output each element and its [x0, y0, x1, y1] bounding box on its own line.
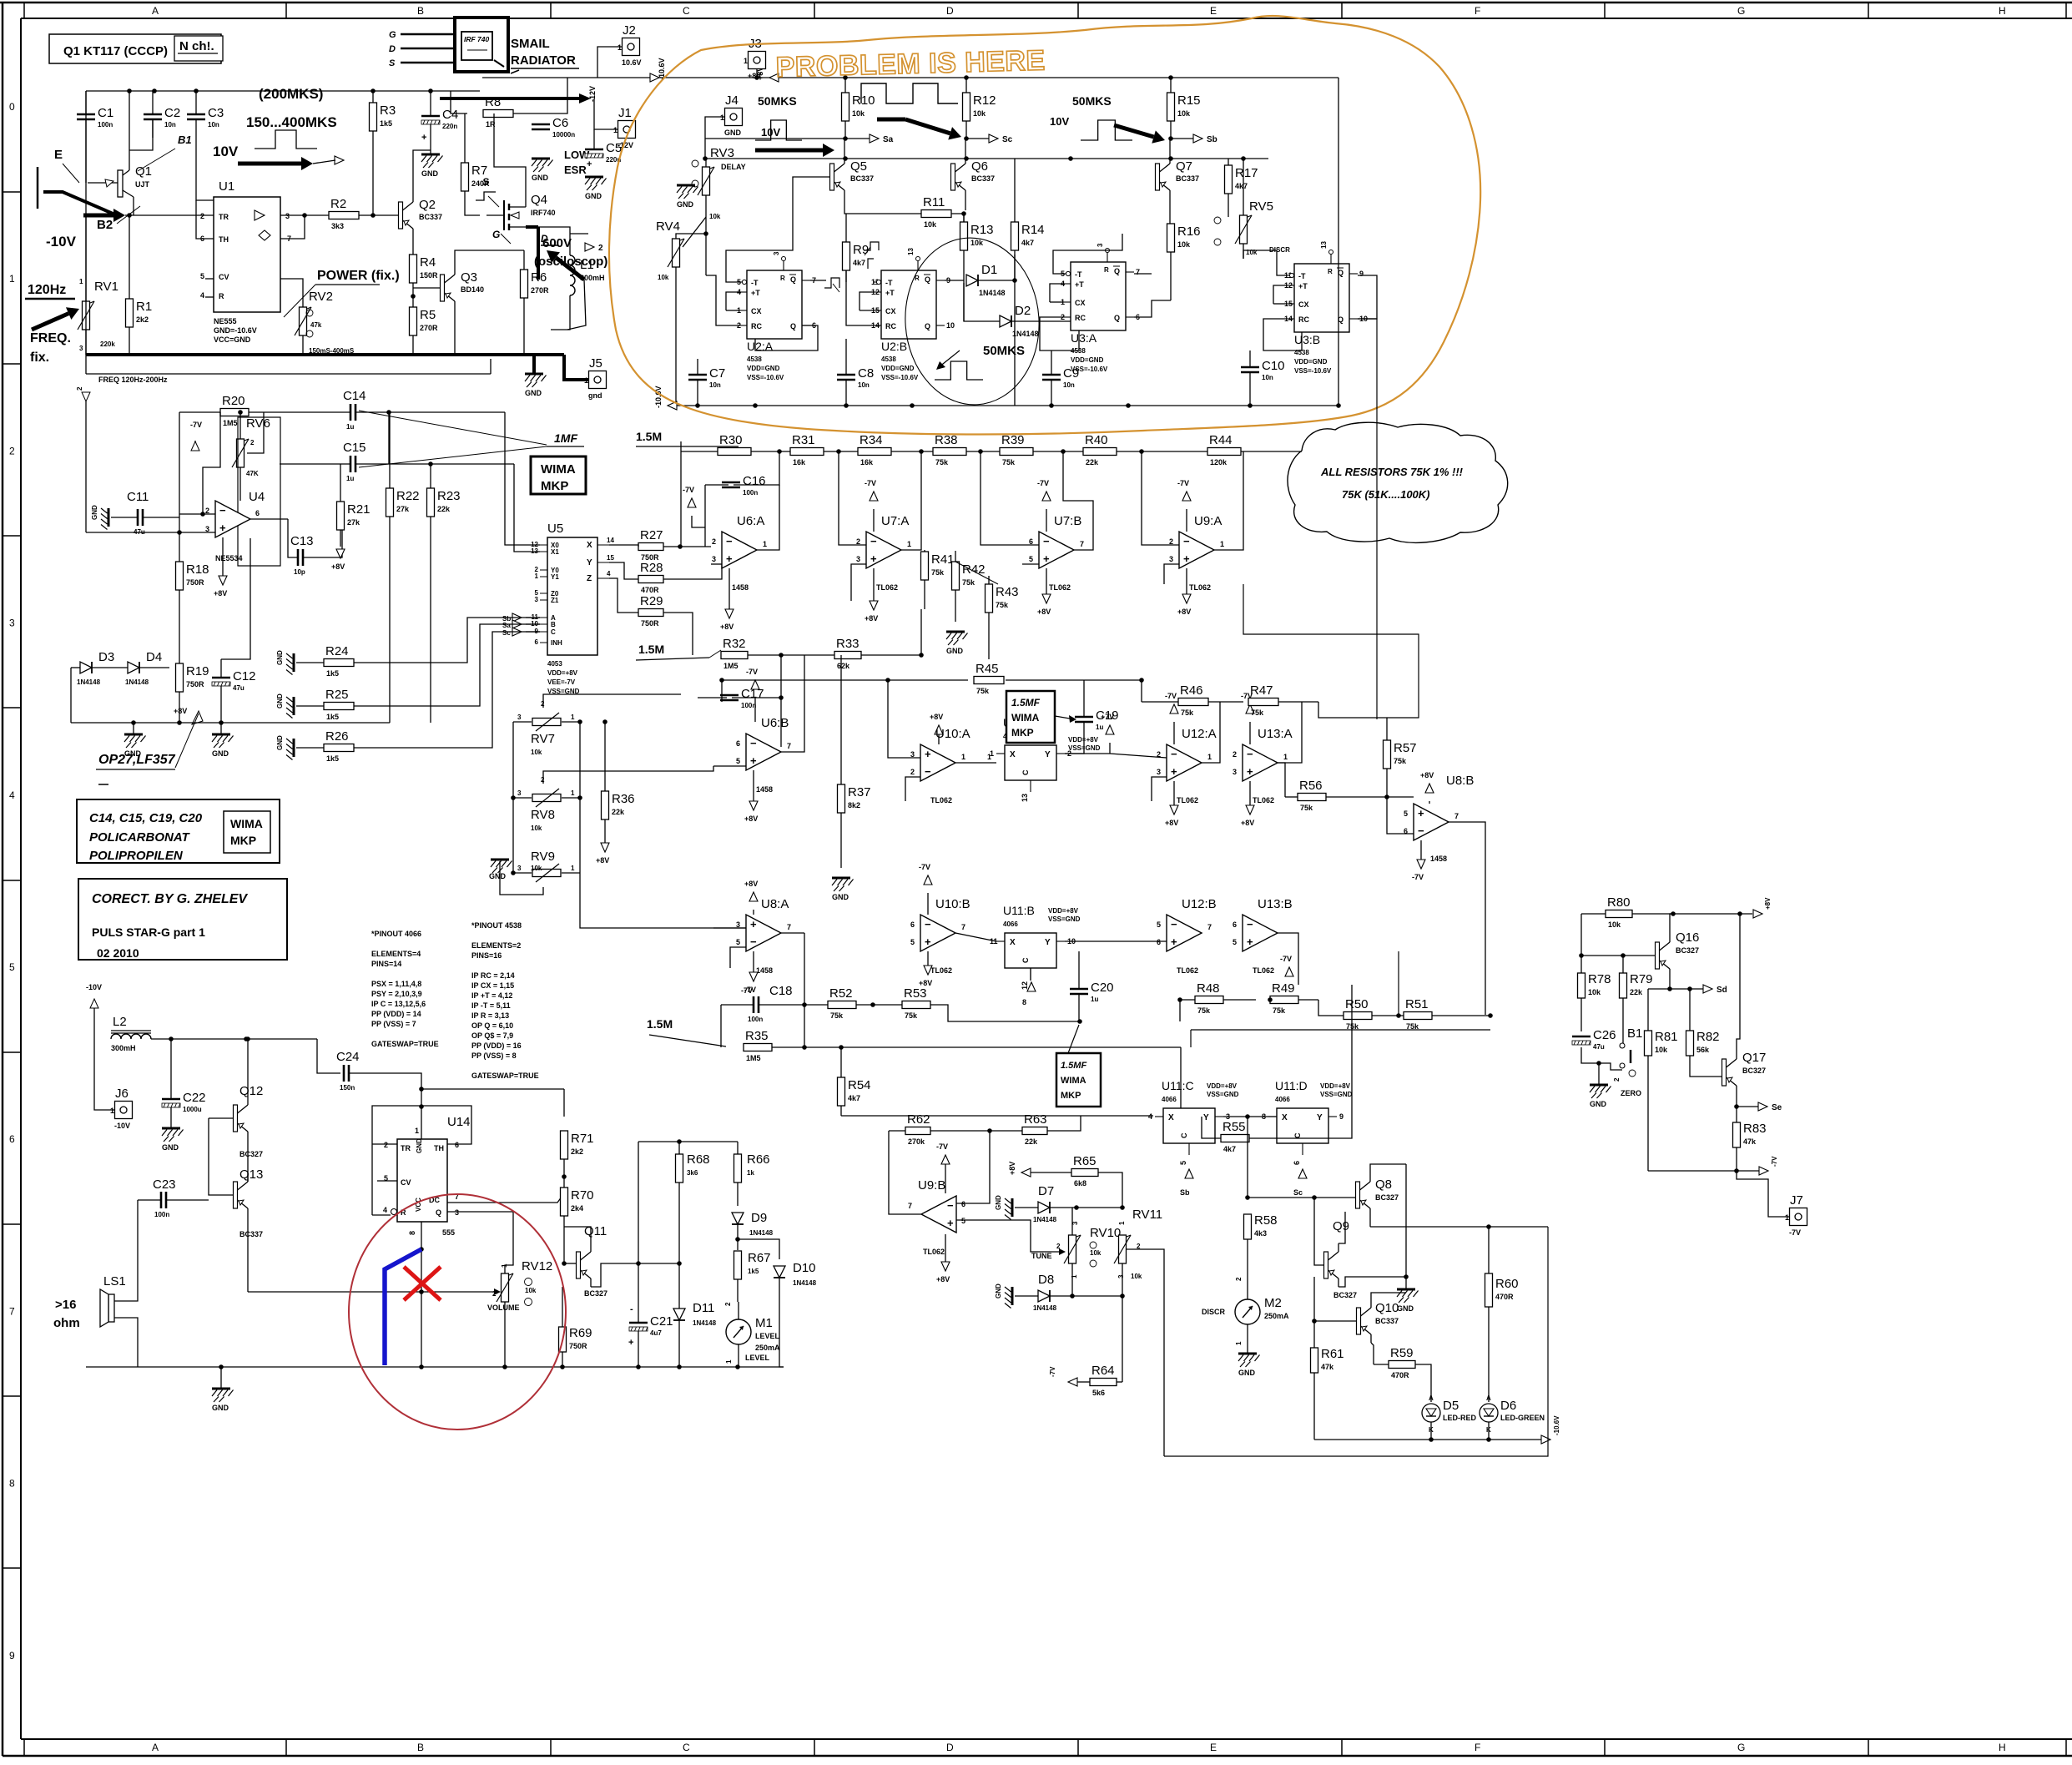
- transistor Q5: [830, 155, 875, 199]
- svg-text:R65: R65: [1073, 1154, 1096, 1168]
- WIMA MKP box top: [531, 456, 586, 494]
- svg-text:-T: -T: [1075, 270, 1082, 279]
- svg-text:GND: GND: [724, 129, 742, 137]
- power -10V top: [86, 983, 102, 1008]
- transistor Q12: [234, 1097, 249, 1140]
- svg-text:10.6V: 10.6V: [622, 58, 642, 67]
- resistor R66: [734, 1152, 770, 1183]
- resistor R82: [1686, 1030, 1720, 1056]
- wire base row Q16: [1581, 955, 1655, 956]
- wire R82 col top: [1689, 989, 1691, 1031]
- svg-text:14: 14: [607, 537, 614, 544]
- wire Q9 emitter row: [1338, 1277, 1406, 1287]
- wire left col from J5 region: [680, 441, 682, 547]
- wire U4 plus: [86, 532, 215, 533]
- svg-text:75k: 75k: [931, 568, 945, 577]
- svg-text:-7V: -7V: [683, 486, 694, 494]
- resistor R22: [386, 488, 420, 517]
- orange marker loop: [609, 16, 1480, 435]
- svg-text:1k5: 1k5: [326, 713, 339, 721]
- svg-text:+: +: [1043, 552, 1050, 565]
- svg-text:CORECT. BY G. ZHELEV: CORECT. BY G. ZHELEV: [92, 892, 248, 906]
- wire R41: [924, 550, 925, 552]
- capacitor C20: [1070, 981, 1114, 1003]
- wire U7B in-: [981, 451, 1039, 545]
- potentiometer RV11: [1114, 1235, 1131, 1263]
- wire RV6 top: [239, 412, 241, 439]
- wire R33: [804, 654, 834, 656]
- wire U1 pin7: [280, 215, 305, 239]
- svg-text:C7: C7: [709, 366, 725, 381]
- svg-text:TL062: TL062: [930, 796, 952, 804]
- wire U2A rc: [755, 325, 818, 350]
- potentiometer RV7: [532, 713, 561, 731]
- resistor R57: [1384, 740, 1417, 769]
- svg-text:RV4: RV4: [656, 219, 680, 234]
- wire R56 left: [1278, 763, 1285, 797]
- transistor Q9: [1324, 1219, 1358, 1299]
- svg-text:16k: 16k: [793, 458, 806, 466]
- svg-text:3: 3: [1096, 243, 1104, 247]
- svg-text:ELEMENTS=2: ELEMENTS=2: [471, 941, 521, 950]
- text POWER fix: [284, 269, 400, 317]
- svg-text:TR: TR: [401, 1144, 411, 1152]
- wire Q16 collector: [1669, 977, 1671, 989]
- svg-text:−: −: [750, 737, 757, 749]
- wire Q5 collector: [844, 139, 845, 155]
- thick bus -12V: [440, 97, 584, 100]
- wire R33 up: [920, 609, 922, 655]
- svg-text:R26: R26: [325, 729, 349, 744]
- svg-text:R68: R68: [687, 1152, 710, 1167]
- svg-text:R78: R78: [1588, 972, 1611, 986]
- svg-text:+: +: [587, 159, 592, 169]
- op-amp U12:A: [1167, 727, 1217, 804]
- resistor R38: [933, 433, 966, 466]
- svg-text:IP -T = 5,11: IP -T = 5,11: [471, 1001, 511, 1010]
- wire top row col: [638, 1142, 639, 1263]
- wire RV9: [513, 872, 532, 874]
- svg-text:R: R: [1328, 268, 1333, 275]
- resistor R43: [986, 584, 1019, 613]
- wire R81 dn: [1647, 1056, 1649, 1171]
- svg-text:100n: 100n: [154, 1211, 169, 1218]
- rail -10.6V bottom right: [1314, 1439, 1542, 1440]
- svg-text:Q5: Q5: [850, 159, 867, 174]
- wire R46: [1142, 701, 1178, 703]
- wire 865 down: [721, 680, 723, 702]
- svg-text:RV5: RV5: [1249, 199, 1273, 214]
- wire right rail down: [1338, 78, 1339, 406]
- svg-text:R81: R81: [1655, 1030, 1678, 1044]
- resistor R33: [834, 637, 861, 670]
- svg-text:M1: M1: [755, 1316, 773, 1330]
- svg-text:GND: GND: [212, 749, 229, 758]
- connector J3: [744, 37, 766, 80]
- svg-text:WIMA: WIMA: [1061, 1076, 1086, 1086]
- svg-text:1.5MF: 1.5MF: [1011, 697, 1041, 709]
- ground C26: [1590, 1063, 1611, 1108]
- svg-text:5: 5: [200, 272, 204, 280]
- resistor R61: [1311, 1347, 1344, 1373]
- svg-text:R30: R30: [719, 433, 743, 447]
- svg-text:3: 3: [712, 555, 716, 563]
- power -7V U8B: [1412, 840, 1425, 881]
- svg-text:6: 6: [255, 509, 260, 517]
- svg-text:U2:B: U2:B: [881, 340, 907, 353]
- svg-text:R35: R35: [745, 1029, 769, 1043]
- svg-text:MKP: MKP: [1061, 1091, 1081, 1101]
- wire R20 left col: [179, 412, 180, 436]
- svg-text:R69: R69: [569, 1326, 592, 1340]
- svg-text:4k7: 4k7: [1223, 1145, 1236, 1153]
- wire R32: [748, 654, 804, 656]
- resistor R78: [1578, 972, 1611, 998]
- resistor R54: [838, 1077, 871, 1106]
- svg-text:9: 9: [9, 1650, 15, 1662]
- wire C7: [697, 359, 698, 375]
- svg-text:VSS=GND: VSS=GND: [1320, 1091, 1353, 1098]
- wire Q4 source: [526, 225, 538, 229]
- wire RV7 input rail to U8A: [580, 873, 746, 928]
- resistor R41: [921, 552, 955, 580]
- svg-text:-12V: -12V: [588, 86, 597, 102]
- svg-text:RC: RC: [885, 322, 896, 330]
- svg-text:A: A: [152, 5, 159, 17]
- wire L1 to scope arrow: [570, 233, 588, 234]
- svg-text:R28: R28: [640, 561, 663, 575]
- capacitor C1: [77, 106, 113, 129]
- signal arrow: [512, 613, 522, 622]
- diode D7: [1033, 1184, 1057, 1223]
- text block PINOUT 4538: [471, 921, 539, 1080]
- label B1: [138, 134, 192, 171]
- wire U5 left stubs: [526, 617, 540, 618]
- wire J3 down: [756, 69, 758, 78]
- svg-text:4066: 4066: [1162, 1096, 1177, 1103]
- wire R80 left col: [1580, 914, 1582, 956]
- svg-text:27k: 27k: [347, 518, 360, 527]
- node -7V: [1734, 1168, 1739, 1173]
- svg-text:−: −: [219, 504, 226, 517]
- svg-text:GND: GND: [212, 1404, 229, 1412]
- resistor R65: [1071, 1154, 1098, 1188]
- svg-text:U7:B: U7:B: [1054, 514, 1081, 528]
- wire D3D4: [71, 667, 80, 668]
- wire Q16 emitter: [1670, 914, 1673, 934]
- wire RV4 wiper line: [683, 217, 706, 247]
- power +8V U9B: [936, 1234, 950, 1283]
- wire RV11 pin2: [1127, 1249, 1164, 1456]
- wire C21: [638, 1263, 639, 1323]
- svg-text:7: 7: [787, 742, 791, 750]
- resistor R4: [410, 255, 439, 283]
- ground: [995, 1195, 1012, 1220]
- wire U2B q: [945, 280, 964, 281]
- svg-text:LEVEL: LEVEL: [755, 1332, 780, 1340]
- svg-text:POLIPROPILEN: POLIPROPILEN: [89, 849, 184, 863]
- resistor R6: [521, 270, 550, 298]
- svg-text:PSY = 2,10,3,9: PSY = 2,10,3,9: [371, 990, 422, 998]
- wire RV9 tap: [500, 873, 543, 895]
- wire RV9 col: [512, 798, 514, 873]
- power +8V U9A: [1177, 568, 1191, 616]
- svg-text:+T: +T: [885, 289, 895, 297]
- svg-text:RV1: RV1: [94, 280, 118, 294]
- op-amp U10:A: [920, 727, 970, 804]
- svg-text:IP C = 13,12,5,6: IP C = 13,12,5,6: [371, 1000, 426, 1008]
- svg-text:VSS=GND: VSS=GND: [1207, 1091, 1239, 1098]
- wire Q5 emitter: [844, 199, 845, 210]
- wire rail drop Q1 col: [85, 91, 87, 355]
- thick bottom oscillator rail: [86, 353, 564, 356]
- wire Q3 base: [413, 287, 440, 289]
- svg-text:5: 5: [736, 757, 740, 765]
- svg-text:+8V: +8V: [936, 1275, 950, 1283]
- wire R15: [1170, 78, 1172, 93]
- svg-text:R1: R1: [136, 300, 152, 314]
- svg-text:WIMA: WIMA: [541, 462, 576, 477]
- wire C24 right: [349, 1073, 421, 1089]
- svg-text:D11: D11: [693, 1301, 714, 1315]
- red X marker: [404, 1267, 441, 1300]
- resistor R20: [220, 394, 249, 427]
- text 1.5M mid: [636, 643, 721, 660]
- svg-text:RC: RC: [751, 322, 762, 330]
- svg-text:OP Q$ = 7,9: OP Q$ = 7,9: [471, 1031, 513, 1040]
- svg-text:RC: RC: [1075, 314, 1086, 322]
- svg-text:Q4: Q4: [531, 193, 547, 207]
- resistor R32: [721, 637, 748, 670]
- thick arrow Sc: [877, 119, 961, 139]
- svg-text:C: C: [1021, 957, 1030, 963]
- svg-text:47k: 47k: [1743, 1137, 1757, 1146]
- wire U6B out: [781, 655, 804, 752]
- wire U8A in: [713, 927, 746, 929]
- svg-text:270R: 270R: [420, 324, 438, 332]
- mid rail R45 row: [722, 679, 968, 681]
- power arrow -7V: [1177, 479, 1191, 501]
- resistor R67: [734, 1251, 771, 1279]
- wire top oscillator rail: [86, 90, 480, 92]
- wire R8 right: [513, 78, 567, 113]
- svg-text:1: 1: [415, 1127, 419, 1135]
- svg-text:+8V: +8V: [1008, 1162, 1016, 1175]
- wire D1 up: [1014, 255, 1016, 280]
- svg-text:IRF740: IRF740: [531, 209, 556, 217]
- wire R65: [1031, 1172, 1071, 1173]
- svg-text:TL062: TL062: [1049, 583, 1071, 592]
- svg-text:750R: 750R: [641, 619, 659, 628]
- svg-text:R12: R12: [973, 93, 996, 108]
- IC U3:B: [1284, 241, 1368, 375]
- svg-text:1: 1: [1207, 753, 1212, 761]
- svg-text:IP R = 3,13: IP R = 3,13: [471, 1011, 509, 1020]
- svg-text:X: X: [587, 541, 592, 550]
- wire U3A qbar: [1134, 273, 1152, 275]
- resistor R27: [638, 528, 663, 562]
- wire C15 right: [389, 463, 514, 465]
- svg-text:Q3: Q3: [461, 270, 477, 285]
- capacitor C6: [532, 116, 575, 139]
- svg-text:R44: R44: [1209, 433, 1233, 447]
- power +8V U7A: [865, 568, 878, 623]
- svg-text:U13:A: U13:A: [1258, 727, 1293, 741]
- blue marker line: [385, 1249, 421, 1365]
- svg-text:5: 5: [1029, 555, 1033, 563]
- svg-text:BC327: BC327: [1676, 946, 1699, 955]
- wire 555 pin3: [447, 1212, 513, 1275]
- svg-text:3: 3: [517, 865, 522, 872]
- wire R49: [1298, 999, 1318, 1001]
- svg-text:D7: D7: [1038, 1184, 1054, 1198]
- svg-text:Z1: Z1: [551, 597, 559, 604]
- wire B1: [1599, 1063, 1622, 1070]
- potentiometer RV8: [532, 789, 561, 807]
- thick arrow: [755, 144, 834, 157]
- IRF740 radiator symbol: [455, 18, 508, 72]
- transistor Q12: [234, 1084, 264, 1158]
- svg-text:TUNE: TUNE: [1031, 1252, 1052, 1260]
- svg-text:2: 2: [598, 244, 603, 253]
- wire freq row: [86, 373, 491, 375]
- power arrow Sb: [1180, 1169, 1193, 1197]
- svg-text:VSS=GND: VSS=GND: [1048, 915, 1081, 923]
- svg-text:LED-GREEN: LED-GREEN: [1500, 1414, 1545, 1422]
- resistor R55: [1221, 1120, 1249, 1153]
- svg-text:IP +T = 4,12: IP +T = 4,12: [471, 991, 512, 1000]
- node Se: [1734, 1104, 1739, 1109]
- wire U2B -T trig: [864, 242, 879, 269]
- svg-text:R3: R3: [380, 103, 396, 118]
- svg-text:VDD=GND: VDD=GND: [1071, 356, 1104, 364]
- wire RV7 tap: [543, 694, 681, 708]
- svg-text:TL062: TL062: [1253, 796, 1274, 804]
- svg-text:22k: 22k: [1086, 458, 1099, 466]
- svg-text:U3:A: U3:A: [1071, 331, 1097, 345]
- svg-text:(200MKS): (200MKS): [259, 86, 323, 102]
- nodes row3: [131, 720, 136, 725]
- svg-text:U8:B: U8:B: [1446, 774, 1474, 788]
- svg-text:J5: J5: [589, 356, 602, 371]
- capacitor C22: [162, 1091, 206, 1113]
- svg-text:2: 2: [712, 537, 716, 546]
- svg-text:750R: 750R: [186, 578, 204, 587]
- svg-text:4: 4: [1148, 1112, 1152, 1121]
- node r190b: [843, 156, 848, 161]
- svg-text:PSX = 1,11,4,8: PSX = 1,11,4,8: [371, 980, 421, 988]
- svg-text:+T: +T: [751, 289, 760, 297]
- svg-text:X: X: [1010, 750, 1016, 759]
- svg-text:C13: C13: [290, 534, 314, 548]
- svg-text:R15: R15: [1177, 93, 1201, 108]
- signal arrow Sc: [989, 134, 1013, 144]
- svg-text:1u: 1u: [1091, 996, 1098, 1003]
- wire C5 up: [593, 129, 595, 149]
- svg-text:2: 2: [1056, 1243, 1061, 1250]
- svg-text:BC337: BC337: [239, 1230, 263, 1238]
- frame row numbers: [9, 101, 15, 1662]
- svg-text:R50: R50: [1345, 997, 1369, 1011]
- svg-text:VDD=GND: VDD=GND: [747, 365, 780, 372]
- svg-text:1: 1: [571, 865, 575, 872]
- wire R69: [562, 1287, 563, 1327]
- svg-text:CX: CX: [1075, 299, 1086, 307]
- svg-text:C: C: [551, 628, 556, 636]
- resistor R42: [952, 562, 986, 590]
- svg-text:ZERO: ZERO: [1621, 1089, 1641, 1097]
- svg-text:10n: 10n: [858, 381, 870, 389]
- diode D3: [80, 662, 92, 673]
- svg-text:10k: 10k: [1608, 920, 1621, 929]
- svg-text:U4: U4: [249, 490, 265, 504]
- svg-text:R: R: [219, 292, 224, 300]
- wire Q10 base col: [1313, 1277, 1315, 1348]
- svg-text:R80: R80: [1607, 895, 1631, 910]
- ground: [421, 154, 443, 178]
- wire R35: [772, 1046, 1181, 1048]
- svg-text:R19: R19: [186, 664, 209, 678]
- svg-text:10V: 10V: [213, 144, 239, 159]
- 1.5MF WIMA MKP box low: [1056, 1025, 1101, 1107]
- potentiometer RV3: [692, 146, 746, 220]
- power arrow -7V: [744, 972, 758, 994]
- svg-text:G: G: [1737, 5, 1745, 17]
- resistor R35: [744, 1029, 772, 1062]
- wire C12: [220, 659, 222, 678]
- svg-text:R27: R27: [640, 528, 663, 542]
- wire Q8 right col: [1405, 1164, 1407, 1277]
- svg-text:2: 2: [384, 1141, 388, 1149]
- power arrow +8V: [865, 601, 878, 623]
- potentiometer RV4: [668, 239, 684, 267]
- IC U5 4053: [531, 522, 614, 695]
- wire D10: [779, 1278, 784, 1367]
- wire C17: [698, 697, 727, 698]
- svg-text:1N4148: 1N4148: [693, 1319, 717, 1327]
- wire RV3 tap: [705, 234, 707, 275]
- ground: [91, 505, 108, 530]
- svg-text:+: +: [726, 552, 733, 565]
- capacitor C19: [1075, 709, 1119, 731]
- thick arrow: [905, 119, 961, 139]
- svg-text:R52: R52: [829, 986, 853, 1001]
- diode D7: [1038, 1202, 1050, 1213]
- svg-text:R62: R62: [907, 1112, 930, 1127]
- thick arrow: [238, 157, 313, 170]
- wire U1 pin4: [205, 296, 214, 298]
- connector J5: [584, 356, 607, 400]
- svg-text:+: +: [1183, 552, 1190, 565]
- svg-text:B: B: [417, 1742, 424, 1753]
- svg-text:47u: 47u: [1593, 1043, 1605, 1051]
- svg-text:1458: 1458: [732, 583, 749, 592]
- resistor R59: [1389, 1346, 1415, 1379]
- svg-text:R55: R55: [1223, 1120, 1246, 1134]
- transistor Q4 IRF740 MOSFET: [486, 192, 556, 230]
- svg-text:7: 7: [787, 923, 791, 931]
- potentiometer RV12: [497, 1273, 513, 1302]
- potentiometer RV12: [492, 1259, 552, 1306]
- wire L1: [538, 227, 570, 255]
- wire Q12-Q13 base link: [209, 1118, 233, 1195]
- frame row ticks left: [3, 192, 21, 1568]
- svg-text:10k: 10k: [852, 109, 865, 118]
- wire U12A: [1110, 754, 1167, 758]
- wire R29: [609, 578, 638, 613]
- svg-text:Q: Q: [790, 322, 796, 330]
- node pin7: [302, 213, 307, 218]
